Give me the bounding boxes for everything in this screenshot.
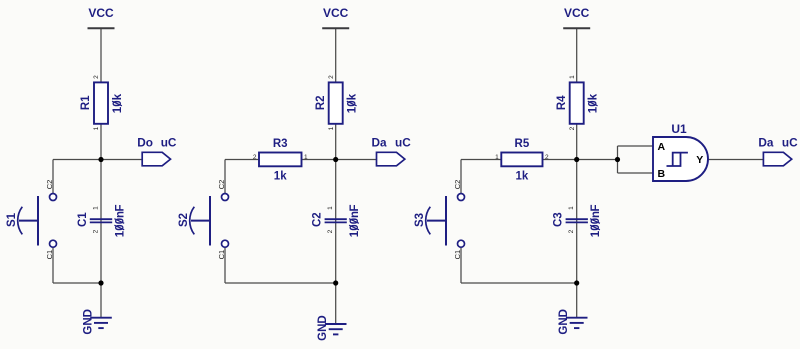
svg-text:Da: Da [372, 135, 388, 149]
svg-text:1: 1 [93, 206, 100, 210]
wire switch top stub [224, 160, 226, 194]
pin number 2 (C1 bottom) [93, 229, 100, 233]
svg-text:2: 2 [327, 229, 334, 233]
wire node to connector [101, 159, 142, 161]
wire VCC stem R2 [335, 28, 337, 83]
wire to pin B [618, 172, 654, 174]
svg-text:S3: S3 [414, 213, 426, 227]
bottom junction (circuit 2) [333, 280, 338, 285]
wire R1 to node [100, 124, 102, 160]
wire bottom return [461, 282, 577, 284]
wire bottom return [53, 282, 101, 284]
wire GND stem [335, 283, 337, 324]
wire GND stem [576, 283, 578, 317]
pin number 1 (R2 bottom) [328, 126, 335, 130]
ground GND (circuit 1) [82, 309, 112, 335]
pin name B [658, 168, 666, 180]
resistor R2 10k [315, 82, 359, 123]
ground GND (circuit 2) [317, 315, 347, 341]
svg-text:Da: Da [758, 135, 774, 149]
node junction (circuit 2) [333, 157, 338, 162]
pin number 1 (R1 bottom) [93, 126, 100, 130]
switch S3 (pushbutton) [414, 194, 465, 248]
capacitor C3 100nF [553, 204, 602, 237]
wire node to connector [336, 159, 377, 161]
svg-text:2: 2 [328, 75, 335, 79]
svg-text:uC: uC [395, 135, 411, 149]
wire to pin A [618, 145, 654, 147]
pin number 2 (R5 right) [545, 154, 549, 161]
pin number 2 (C3 bottom) [568, 229, 575, 233]
svg-text:2: 2 [253, 154, 257, 161]
node junction (circuit 3) [574, 157, 579, 162]
pin label C2 (S2 top contact) [217, 180, 226, 190]
svg-text:Y: Y [696, 154, 703, 166]
wire node to gate input junction [577, 159, 618, 161]
wire node to cap/GND rail [335, 160, 337, 284]
pin number 1 (C2 top) [327, 206, 334, 210]
pin label C1 (S2 bottom contact) [217, 250, 226, 260]
wire VCC stem R1 [100, 28, 102, 83]
svg-text:R3: R3 [273, 138, 288, 150]
pin label C2 (S1 top contact) [45, 180, 54, 190]
svg-text:1k: 1k [274, 171, 287, 183]
op-amp U1 (Schmitt-trigger AND gate) [653, 122, 708, 181]
wire input tie vertical [617, 146, 619, 173]
pin number 2 (R2 top) [328, 75, 335, 79]
svg-text:1: 1 [93, 126, 100, 130]
power VCC (circuit 2) [322, 6, 349, 28]
svg-text:R2: R2 [315, 95, 327, 110]
wire node to switch S1 [53, 159, 101, 161]
pin number 1 (R3 right) [304, 154, 308, 161]
svg-text:C1: C1 [453, 250, 462, 260]
svg-text:U1: U1 [671, 122, 687, 136]
pin name A [658, 141, 666, 153]
pin label C1 (S3 bottom contact) [453, 250, 462, 260]
svg-text:1k: 1k [516, 171, 529, 183]
pin number 1 (R5 left) [495, 154, 499, 161]
pin number 2 (R3 left) [253, 154, 257, 161]
svg-text:1: 1 [569, 75, 576, 79]
svg-text:2: 2 [569, 126, 576, 130]
svg-text:1: 1 [328, 126, 335, 130]
resistor R5 1k [501, 138, 542, 183]
svg-text:2: 2 [545, 154, 549, 161]
svg-text:F: F [590, 204, 602, 211]
svg-text:R4: R4 [556, 95, 568, 110]
svg-text:GND: GND [82, 309, 94, 335]
svg-text:k: k [347, 93, 359, 100]
svg-text:1: 1 [495, 154, 499, 161]
svg-text:R1: R1 [80, 95, 92, 110]
svg-text:Do: Do [137, 135, 153, 149]
wire R2 to node [335, 124, 337, 160]
svg-text:C3: C3 [553, 212, 565, 227]
pin number 2 (R4 bottom) [569, 126, 576, 130]
wire bottom return [225, 282, 336, 284]
switch S2 (pushbutton) [178, 194, 229, 248]
svg-text:S1: S1 [6, 212, 18, 227]
svg-text:S2: S2 [178, 213, 190, 227]
pin number 1 (C1 top) [93, 206, 100, 210]
bottom junction (circuit 3) [574, 280, 579, 285]
resistor R1 10k [80, 82, 124, 123]
pin label C2 (S3 top contact) [453, 180, 462, 190]
svg-text:1: 1 [568, 206, 575, 210]
wire switch bottom stub [460, 247, 462, 283]
capacitor C2 100nF [312, 204, 361, 237]
svg-text:A: A [658, 141, 666, 153]
pin name Y [696, 154, 703, 166]
svg-text:GND: GND [558, 309, 570, 335]
connector Da uC [372, 135, 412, 166]
svg-text:VCC: VCC [88, 6, 114, 20]
power VCC (circuit 1) [88, 6, 115, 28]
wire switch top stub [460, 160, 462, 194]
capacitor C1 100nF [77, 204, 126, 237]
svg-text:uC: uC [161, 135, 177, 149]
svg-text:C1: C1 [45, 250, 54, 260]
wire gate output Y to connector [708, 159, 764, 161]
switch S1 (pushbutton) [6, 194, 57, 248]
svg-text:k: k [588, 93, 600, 100]
svg-text:C2: C2 [45, 180, 54, 190]
svg-text:F: F [114, 204, 126, 211]
svg-text:B: B [658, 168, 666, 180]
wire node to cap/GND rail [100, 160, 102, 284]
wire switch bottom stub [52, 247, 54, 283]
pin number 1 (C3 top) [568, 206, 575, 210]
svg-text:1: 1 [327, 206, 334, 210]
svg-text:2: 2 [568, 229, 575, 233]
svg-text:VCC: VCC [323, 6, 349, 20]
pin label C1 (S1 bottom contact) [45, 250, 54, 260]
svg-text:C2: C2 [453, 180, 462, 190]
wire switch top stub [52, 160, 54, 194]
svg-text:R5: R5 [515, 138, 530, 150]
resistor R3 1k [259, 138, 302, 183]
connector Do uC [137, 135, 177, 166]
resistor R4 10k [556, 82, 600, 123]
wire node to cap/GND rail [576, 160, 578, 284]
wire GND stem [100, 283, 102, 317]
svg-text:C2: C2 [217, 180, 226, 190]
svg-text:C1: C1 [77, 212, 89, 227]
bottom junction (circuit 1) [98, 280, 103, 285]
wire switch bottom stub [224, 247, 226, 283]
svg-text:2: 2 [93, 75, 100, 79]
wire R4 to node [576, 124, 578, 160]
wire VCC stem R4 [576, 28, 578, 83]
node junction (circuit 1) [98, 157, 103, 162]
svg-text:uC: uC [782, 135, 798, 149]
svg-text:C2: C2 [312, 212, 324, 227]
svg-text:1: 1 [304, 154, 308, 161]
pin number 1 (R4 top) [569, 75, 576, 79]
svg-text:VCC: VCC [564, 6, 590, 20]
pin number 2 (R1 top) [93, 75, 100, 79]
wire switch S3 to R5 [461, 159, 577, 161]
connector Da uC [758, 135, 798, 166]
power VCC (circuit 3) [563, 6, 590, 28]
gate input tie junction [615, 157, 620, 162]
svg-text:GND: GND [317, 315, 329, 341]
svg-text:F: F [349, 204, 361, 211]
pin number 2 (C2 bottom) [327, 229, 334, 233]
svg-text:k: k [112, 93, 124, 100]
svg-text:C1: C1 [217, 250, 226, 260]
wire switch S2 to R3 [225, 159, 336, 161]
svg-text:2: 2 [93, 229, 100, 233]
ground GND (circuit 3) [558, 309, 588, 335]
